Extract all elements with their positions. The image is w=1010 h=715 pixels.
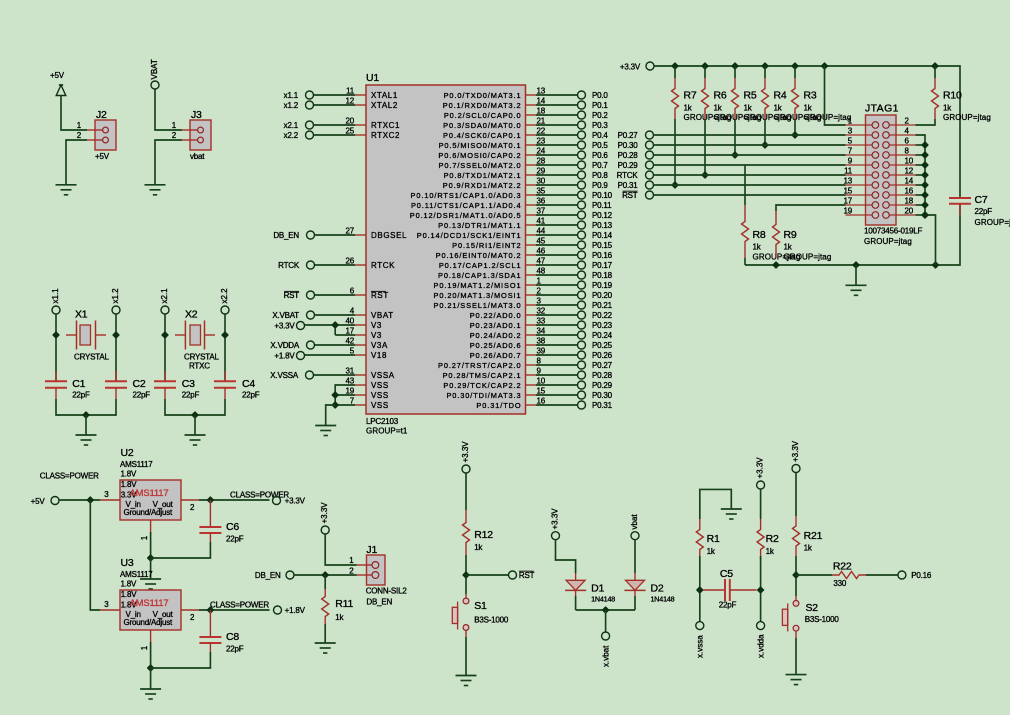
wire U1 pin 45 to terminal P0.15 <box>536 244 578 246</box>
U1 pin 2 (P0.20/MAT1.3/MOSI1) right <box>434 287 542 301</box>
JTAG1 pin 14 <box>883 177 916 189</box>
svg-text:x.vdda: x.vdda <box>756 634 765 658</box>
terminal x.vssa <box>696 622 705 658</box>
svg-text:+3.3V: +3.3V <box>756 457 765 479</box>
capacitor C8 <box>199 610 243 654</box>
wire U1 pin 38 to terminal P0.25 <box>536 344 578 346</box>
U1 pin 24 (P0.6/MOSI0/CAP0.2) right <box>438 147 545 161</box>
wire ground rail (JTAG) <box>745 204 960 265</box>
terminal +5V (U2) <box>31 497 59 507</box>
JTAG1 pin 3 <box>846 127 879 139</box>
svg-text:P0.25: P0.25 <box>592 341 613 350</box>
svg-text:P0.3: P0.3 <box>592 121 608 130</box>
node junction left (X1) <box>53 332 59 338</box>
terminal +3.3V (U1 side) <box>274 322 304 331</box>
wire to x.vbat terminal <box>605 610 607 632</box>
ground (U2) <box>140 558 161 589</box>
svg-text:B3S-1000: B3S-1000 <box>805 615 840 624</box>
svg-text:P0.30: P0.30 <box>592 391 613 400</box>
wire U3 pin1 down <box>150 642 152 668</box>
svg-text:S2: S2 <box>806 602 819 614</box>
wire R22 to P0.16 <box>866 574 898 576</box>
svg-text:24: 24 <box>537 147 546 156</box>
terminal RST (reset) <box>509 571 535 580</box>
svg-text:P0.25/AD0.6: P0.25/AD0.6 <box>470 341 522 350</box>
svg-text:X1: X1 <box>75 309 88 321</box>
terminal P0.20 <box>578 291 613 300</box>
svg-text:1k: 1k <box>684 104 693 113</box>
resistor R11 <box>324 575 326 589</box>
wire +5V to U2 pin 3 <box>59 499 100 501</box>
svg-text:GROUP=jtag: GROUP=jtag <box>804 113 852 122</box>
svg-text:P0.3/SDA0/MAT0.0: P0.3/SDA0/MAT0.0 <box>443 121 521 130</box>
svg-text:CRYSTAL: CRYSTAL <box>184 353 220 362</box>
wire R6 to row 175 <box>704 119 706 175</box>
terminal P0.31 (JTAG side) <box>618 181 654 190</box>
U1 pin 21 (P0.3/SDA0/MAT0.0) right <box>443 117 546 131</box>
svg-text:P0.22: P0.22 <box>592 311 613 320</box>
U1 pin 48 (P0.18/CAP1.3/SDA1) right <box>438 267 546 281</box>
node junction R2/C5 <box>758 587 764 593</box>
svg-text:P0.10/RTS1/CAP1.0/AD0.3: P0.10/RTS1/CAP1.0/AD0.3 <box>411 191 522 200</box>
svg-text:14: 14 <box>905 177 914 186</box>
JTAG1 pin 16 <box>883 187 916 199</box>
wire U1 pin 30 to terminal P0.9 <box>536 184 578 186</box>
svg-text:X2: X2 <box>185 309 198 321</box>
svg-text:18: 18 <box>537 107 546 116</box>
svg-text:27: 27 <box>346 227 355 236</box>
U2 pin 3 <box>100 490 120 500</box>
ground (J2) <box>56 184 77 195</box>
node junction V3 <box>332 322 338 328</box>
svg-text:19: 19 <box>346 387 355 396</box>
svg-text:P0.16: P0.16 <box>592 251 613 260</box>
svg-text:J3: J3 <box>191 109 202 121</box>
U1 pin 34 (P0.24/AD0.2) right <box>470 327 546 341</box>
svg-text:35: 35 <box>537 187 546 196</box>
terminal X.VSSA <box>270 371 313 380</box>
wire JTAG pin 20 stub <box>916 214 926 216</box>
U1 pin 7 (VSS) left <box>350 397 389 411</box>
svg-text:12: 12 <box>905 167 914 176</box>
terminal +3.3V <box>273 497 306 506</box>
wire U1 pin 37 to terminal P0.12 <box>536 214 578 216</box>
terminal X.VBAT <box>272 311 314 320</box>
wire +3.3V to R21 <box>795 473 797 517</box>
terminal P0.4 <box>578 131 609 140</box>
svg-text:P0.19: P0.19 <box>592 281 613 290</box>
node junction rail x765 <box>762 63 768 69</box>
svg-text:R5: R5 <box>744 90 757 102</box>
svg-text:1k: 1k <box>804 104 813 113</box>
terminal P0.31 <box>578 401 613 410</box>
svg-text:C8: C8 <box>226 631 239 643</box>
svg-text:10: 10 <box>905 157 914 166</box>
svg-text:S1: S1 <box>474 600 487 612</box>
svg-text:45: 45 <box>537 237 546 246</box>
svg-text:1k: 1k <box>707 547 716 556</box>
U1 pin 41 (P0.13/DTR1/MAT1.1) right <box>438 217 546 231</box>
node junction JTAG pin 20 <box>922 212 928 218</box>
svg-text:GROUP=jtag: GROUP=jtag <box>943 113 991 122</box>
svg-text:C4: C4 <box>242 378 255 390</box>
terminal P0.16 <box>898 571 932 580</box>
svg-text:17: 17 <box>844 197 853 206</box>
svg-text:P0.0: P0.0 <box>592 91 608 100</box>
node junction U3 output <box>207 607 213 613</box>
node junction rail x705 <box>702 63 708 69</box>
wire JTAG pin 18 stub <box>916 204 926 206</box>
U1 pin 40 (V3) left <box>346 317 383 331</box>
svg-text:AMS1117: AMS1117 <box>120 570 153 579</box>
svg-text:P0.20: P0.20 <box>592 291 613 300</box>
terminal P0.23 <box>578 321 613 330</box>
svg-text:P0.0/TXD0/MAT3.1: P0.0/TXD0/MAT3.1 <box>444 91 522 100</box>
U1 pin 14 (P0.1/RXD0/MAT3.2) right <box>443 97 546 111</box>
terminal x2.1 (U1 side) <box>284 121 314 130</box>
U1 pin 39 (P0.26/AD0.7) right <box>470 347 546 361</box>
terminal P0.22 <box>578 311 613 320</box>
terminal P0.21 <box>578 301 613 310</box>
svg-text:C1: C1 <box>72 378 85 390</box>
svg-text:P0.29: P0.29 <box>618 161 639 170</box>
svg-text:P0.15/RI1/EINT2: P0.15/RI1/EINT2 <box>452 241 521 250</box>
svg-text:+3.3V: +3.3V <box>791 440 800 462</box>
svg-text:C6: C6 <box>226 521 239 533</box>
svg-text:22pF: 22pF <box>226 535 244 544</box>
svg-text:VSS: VSS <box>371 401 389 410</box>
svg-text:16: 16 <box>905 187 914 196</box>
svg-text:x.vbat: x.vbat <box>601 645 610 667</box>
svg-text:1k: 1k <box>753 243 762 252</box>
svg-text:AMS1117: AMS1117 <box>130 488 169 499</box>
svg-text:P0.2: P0.2 <box>592 111 608 120</box>
wire +5V to J2 pin 1 <box>61 95 87 130</box>
svg-text:V3: V3 <box>371 331 382 340</box>
svg-text:P0.9: P0.9 <box>592 181 608 190</box>
svg-text:13: 13 <box>844 177 853 186</box>
capacitor C2 <box>105 371 150 400</box>
wire bottom (X2) <box>165 399 225 415</box>
wire P0.28 to JTAG <box>654 154 846 156</box>
svg-text:34: 34 <box>537 327 546 336</box>
svg-text:11: 11 <box>844 167 853 176</box>
terminal x2.1 <box>160 288 169 314</box>
svg-text:C2: C2 <box>133 378 146 390</box>
capacitor C7 <box>949 194 1010 227</box>
svg-text:+3.3V: +3.3V <box>461 441 470 463</box>
wire U1 pin 33 to terminal P0.23 <box>536 324 578 326</box>
svg-text:10: 10 <box>537 377 546 386</box>
JTAG1 pin 9 <box>846 157 879 169</box>
terminal RST (JTAG side) <box>622 191 653 200</box>
svg-text:31: 31 <box>346 367 355 376</box>
wire rail to JTAG pin 1 <box>825 66 846 125</box>
svg-text:P0.18: P0.18 <box>592 271 613 280</box>
wire R1 top to ground <box>700 489 732 519</box>
wire U1 pin 24 to terminal P0.6 <box>536 154 578 156</box>
terminal P0.16 <box>578 251 613 260</box>
svg-text:C3: C3 <box>182 378 195 390</box>
wire U1 pin 8 to terminal P0.27 <box>536 364 578 366</box>
svg-text:22pF: 22pF <box>133 391 151 400</box>
terminal P0.27 (JTAG side) <box>618 131 654 140</box>
node junction JTAG pin 12 <box>922 172 928 178</box>
terminal P0.28 <box>578 371 613 380</box>
terminal +3.3V (R12) <box>461 441 470 473</box>
wire R12 to S1 <box>465 555 467 594</box>
svg-text:DB_EN: DB_EN <box>366 597 392 606</box>
terminal P0.2 <box>578 111 609 120</box>
terminal +1.8V <box>274 606 306 615</box>
svg-text:vbat: vbat <box>630 514 639 530</box>
U1 pin 42 (V3A) left <box>346 337 388 351</box>
wire U1 pin 16 to terminal P0.31 <box>536 404 578 406</box>
terminal DB_EN (U1 side) <box>273 231 314 240</box>
svg-text:P0.26: P0.26 <box>592 351 613 360</box>
svg-text:P0.5/MISO0/MAT0.1: P0.5/MISO0/MAT0.1 <box>439 141 522 150</box>
crystal X1 <box>66 321 106 350</box>
svg-text:1N4148: 1N4148 <box>651 594 675 603</box>
svg-text:x2.2: x2.2 <box>220 288 229 304</box>
U1 pin 37 (P0.12/DSR1/MAT1.0/AD0.5) right <box>410 207 546 221</box>
wire U1 pin 2 to terminal P0.20 <box>536 294 578 296</box>
node junction U2 output <box>207 497 213 503</box>
svg-text:P0.29: P0.29 <box>592 381 613 390</box>
svg-text:V18: V18 <box>371 351 387 360</box>
node junction RST <box>463 572 469 578</box>
node junction R22 <box>793 572 799 578</box>
terminal P0.0 <box>578 91 609 100</box>
wire U1 pin 47 to terminal P0.17 <box>536 264 578 266</box>
svg-text:25: 25 <box>346 127 355 136</box>
wire rail to R3 <box>794 66 796 78</box>
svg-text:R3: R3 <box>804 90 817 102</box>
svg-text:D2: D2 <box>651 583 664 595</box>
svg-text:x.vssa: x.vssa <box>696 635 705 658</box>
node junction R3 <box>792 132 798 138</box>
svg-text:P0.23/AD0.1: P0.23/AD0.1 <box>470 321 522 330</box>
svg-text:P0.1: P0.1 <box>592 101 608 110</box>
wire X.VSSA to U1 VSSA <box>314 374 356 376</box>
node junction R1/C5 <box>697 587 703 593</box>
svg-text:U3: U3 <box>121 557 134 569</box>
svg-text:VBAT: VBAT <box>150 59 159 79</box>
pushbutton S1 <box>452 598 509 630</box>
svg-text:DBGSEL: DBGSEL <box>371 231 407 240</box>
wire U3 output <box>199 609 270 611</box>
U1 pin 44 (P0.14/DCD1/SCK1/EINT1) right <box>417 227 546 241</box>
wire U2 output <box>199 499 270 501</box>
svg-text:GROUP=jtag: GROUP=jtag <box>975 218 1010 227</box>
wire vbat to D2 <box>634 540 636 573</box>
wire P0.27 to JTAG <box>654 134 846 136</box>
svg-text:B3S-1000: B3S-1000 <box>474 616 509 625</box>
svg-text:10073456-019LF: 10073456-019LF <box>864 227 922 236</box>
svg-text:RST: RST <box>622 191 638 200</box>
U1 pin 27 (DBGSEL) left <box>346 227 408 241</box>
wire DB_EN to J1 pin 2 <box>294 574 357 576</box>
JTAG1 pin 20 <box>883 207 916 219</box>
svg-text:P0.31: P0.31 <box>592 401 613 410</box>
svg-text:17: 17 <box>346 327 355 336</box>
ground (J3) <box>145 185 166 195</box>
svg-text:1k: 1k <box>335 613 344 622</box>
JTAG1 pin 10 <box>883 157 916 169</box>
svg-text:Ground/Adjust: Ground/Adjust <box>124 618 174 627</box>
U1 pin 5 (V18) left <box>350 347 387 361</box>
svg-text:19: 19 <box>844 207 853 216</box>
svg-text:AMS1117: AMS1117 <box>120 460 153 469</box>
node junction VSS 7 <box>332 402 338 408</box>
U1 pin 3 (P0.21/SSEL1/MAT3.0) right <box>434 297 542 311</box>
regulator U3 body <box>120 590 181 630</box>
wire U2 pin1 to C6 <box>151 542 211 558</box>
svg-text:1.8V: 1.8V <box>121 580 138 589</box>
terminal x.vbat <box>601 632 610 667</box>
svg-text:C7: C7 <box>975 194 988 206</box>
terminal P0.10 <box>578 191 613 200</box>
node junction right (X1) <box>113 332 119 338</box>
wire bottom (X1) <box>56 399 116 415</box>
resistor R3 <box>792 78 852 122</box>
JTAG1 pin 8 <box>883 147 916 159</box>
wire R22 branch <box>796 574 832 576</box>
wire x1.1 down <box>55 314 57 381</box>
wire +1.8V to U1 V18 <box>305 354 356 356</box>
terminal x2.2 <box>220 288 229 314</box>
wire J2 pin 2 to ground <box>66 140 87 185</box>
wire +3.3V to R12 <box>465 473 467 510</box>
node junction rail x935 <box>932 63 938 69</box>
svg-text:RST: RST <box>284 291 300 300</box>
wire RST to U1 <box>315 294 356 296</box>
svg-text:P0.17/CAP1.2/SCL1: P0.17/CAP1.2/SCL1 <box>439 261 522 270</box>
svg-text:P0.27/TRST/CAP2.0: P0.27/TRST/CAP2.0 <box>438 361 522 370</box>
terminal vbat (D2) <box>630 514 639 540</box>
wire U1 pin 14 to terminal P0.1 <box>536 104 578 106</box>
wire R7 to row 185 <box>674 119 676 185</box>
wire U1 pin 28 to terminal P0.7 <box>536 164 578 166</box>
svg-text:CLASS=POWER: CLASS=POWER <box>40 472 99 481</box>
svg-text:P0.21/SSEL1/MAT3.0: P0.21/SSEL1/MAT3.0 <box>434 301 522 310</box>
U1 pin 18 (P0.2/SCL0/CAP0.0) right <box>444 107 546 121</box>
node junction left (X2) <box>162 332 168 338</box>
terminal P0.29 <box>578 381 613 390</box>
node junction VSS 19 <box>332 392 338 398</box>
node junction R6 <box>702 172 708 178</box>
wire R5 to row 155 <box>734 119 736 155</box>
terminal x1.2 (U1 side) <box>284 101 314 110</box>
terminal +3.3V (R2) <box>756 457 765 489</box>
svg-text:41: 41 <box>537 217 546 226</box>
wire JTAG pin 16 stub <box>916 194 926 196</box>
svg-text:+3.3V: +3.3V <box>551 508 560 530</box>
terminal RTCK (JTAG side) <box>617 171 654 180</box>
svg-text:R6: R6 <box>714 90 727 102</box>
U1 pin 16 (P0.31/TDO) right <box>476 397 545 411</box>
U1 pin 23 (P0.5/MISO0/MAT0.1) right <box>439 137 546 151</box>
wire R4 to row 145 <box>764 119 766 145</box>
terminal P0.24 <box>578 331 613 340</box>
resistor R8 <box>744 165 746 205</box>
svg-text:14: 14 <box>537 97 546 106</box>
node junction R5 <box>732 152 738 158</box>
node junction U3 pin1 <box>148 665 154 671</box>
U1 pin 33 (P0.23/AD0.1) right <box>470 317 546 331</box>
capacitor C4 <box>214 371 260 400</box>
svg-text:1k: 1k <box>744 104 753 113</box>
wire U1 pin 46 to terminal P0.16 <box>536 254 578 256</box>
U1 pin 43 (VSS) left <box>346 377 389 391</box>
node junction rail x795 <box>792 63 798 69</box>
wire P0.29 to JTAG <box>654 164 846 166</box>
svg-text:+3.3V: +3.3V <box>620 63 641 72</box>
svg-text:R22: R22 <box>833 560 852 572</box>
svg-text:+1.8V: +1.8V <box>285 606 306 615</box>
svg-text:R4: R4 <box>774 90 787 102</box>
JTAG1 pin 1 <box>846 117 879 129</box>
svg-text:P0.27: P0.27 <box>592 361 613 370</box>
svg-text:P0.28/TMS/CAP2.1: P0.28/TMS/CAP2.1 <box>443 371 522 380</box>
connector J1 <box>349 555 385 585</box>
svg-text:42: 42 <box>346 337 355 346</box>
svg-text:P0.14/DCD1/SCK1/EINT1: P0.14/DCD1/SCK1/EINT1 <box>417 231 522 240</box>
wire U1 pin 23 to terminal P0.5 <box>536 144 578 146</box>
wire U1 pin 35 to terminal P0.10 <box>536 194 578 196</box>
svg-text:VSSA: VSSA <box>371 371 395 380</box>
svg-text:J2: J2 <box>96 109 107 121</box>
U1 pin 20 (RTXC1) left <box>346 117 401 131</box>
svg-text:R2: R2 <box>766 533 779 545</box>
svg-text:R9: R9 <box>784 229 797 241</box>
U1 pin 31 (VSSA) left <box>346 367 395 381</box>
U1 pin 15 (P0.30/TDI/MAT3.3) right <box>446 387 545 401</box>
svg-text:P0.12: P0.12 <box>592 211 613 220</box>
ground (R1) <box>721 509 742 519</box>
wire +3.3V to U1 V3 pins <box>305 324 356 326</box>
terminal +3.3V (J1) <box>320 502 329 534</box>
U1 pin 19 (VSS) left <box>346 387 389 401</box>
diode D2 <box>624 580 674 603</box>
U3 pin 1 <box>140 630 151 650</box>
svg-text:P0.20/MAT1.3/MOSI1: P0.20/MAT1.3/MOSI1 <box>434 291 522 300</box>
svg-text:RTCK: RTCK <box>278 261 300 270</box>
U1 pin 6 (RST) left <box>350 287 389 301</box>
svg-text:CRYSTAL: CRYSTAL <box>74 353 110 362</box>
wire VSS to ground <box>326 405 336 426</box>
svg-text:VSS: VSS <box>371 381 389 390</box>
svg-text:R8: R8 <box>753 229 766 241</box>
svg-text:J1: J1 <box>366 544 377 556</box>
svg-text:21: 21 <box>537 117 546 126</box>
U3 pin 2 <box>181 610 199 622</box>
wire +3.3V to R2 <box>760 489 762 519</box>
resistor R5 <box>732 78 792 122</box>
svg-text:CLASS=POWER: CLASS=POWER <box>210 601 269 610</box>
wire U1 pin 3 to terminal P0.21 <box>536 304 578 306</box>
svg-text:RST: RST <box>519 571 535 580</box>
svg-text:x1.2: x1.2 <box>111 288 120 304</box>
svg-text:D1: D1 <box>591 583 604 595</box>
svg-text:P0.28: P0.28 <box>618 151 639 160</box>
svg-text:LPC2103: LPC2103 <box>366 417 399 426</box>
svg-text:P0.19/MAT1.2/MISO1: P0.19/MAT1.2/MISO1 <box>434 281 522 290</box>
svg-text:+3.3V: +3.3V <box>285 497 306 506</box>
U1 pin 13 (P0.0/TXD0/MAT3.1) right <box>444 87 546 101</box>
terminal x2.2 (U1 side) <box>284 131 314 140</box>
svg-text:X.VSSA: X.VSSA <box>270 371 299 380</box>
